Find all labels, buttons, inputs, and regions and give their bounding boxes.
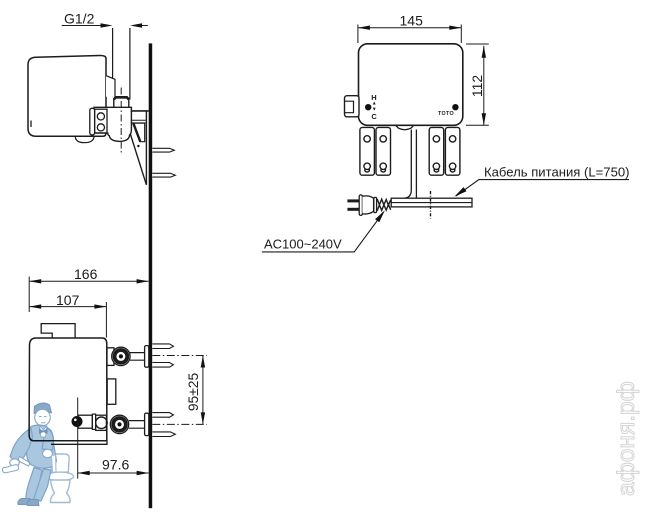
valve body: [94, 107, 131, 141]
centerline pipe dash-dot: [120, 88, 122, 154]
dim 97.6 line: [78, 472, 149, 474]
plate holes lower with keyhole tails: [364, 163, 456, 172]
lower washer: [145, 413, 149, 435]
plumber face: [35, 409, 51, 425]
side small rect: [107, 379, 116, 404]
bracket plate 4: [445, 127, 460, 175]
upper washer: [145, 346, 149, 368]
plumber jacket: [26, 425, 56, 468]
pipe nut: [114, 97, 129, 108]
right arm sleeve: [42, 428, 54, 450]
valve circle upper: [97, 113, 104, 120]
toilet pedestal: [50, 480, 70, 503]
bracket screw dot: [137, 145, 139, 147]
control box: [359, 44, 463, 126]
extension line pipe right: [129, 28, 131, 100]
wrench second jaw: [18, 457, 29, 467]
svg-text:TOTO: TOTO: [438, 111, 454, 117]
lower bolt shaft: [129, 421, 145, 429]
bracket top edge: [131, 110, 149, 112]
valve circle lower: [97, 124, 104, 131]
shoe right: [27, 500, 39, 506]
plug body: [362, 196, 373, 214]
AC label leader: [262, 212, 384, 252]
dim 107 right extension line: [105, 302, 107, 338]
sensor body side view: [28, 55, 106, 136]
bow tie: [39, 429, 48, 435]
upper bolt shaft: [130, 353, 145, 361]
strain relief ribs: [377, 199, 391, 211]
inlet vertical extension: [77, 398, 79, 479]
body bottom foot: [75, 136, 94, 143]
svg-text:афоня.рф: афоня.рф: [613, 381, 640, 496]
bracket cutout heavy diagonal: [133, 123, 140, 142]
pipe nut heavy top: [114, 97, 129, 99]
connector slot: [345, 101, 354, 113]
bracket flange lines: [131, 120, 146, 123]
plug face plate: [359, 195, 362, 216]
plate holes upper: [364, 136, 370, 142]
back plate bottom: [51, 441, 107, 445]
bracket plate 1: [360, 127, 375, 175]
inlet clamp circle: [96, 417, 108, 429]
svg-text:G1/2: G1/2: [64, 11, 95, 27]
cable middle line: [391, 202, 472, 204]
plug prongs: [347, 199, 359, 202]
valve left sub-box: [95, 109, 107, 133]
horizontal cable: [391, 198, 472, 207]
upper wall rod: [152, 148, 174, 152]
inlet clamp: [96, 415, 107, 430]
bracket plate 2: [376, 127, 391, 175]
svg-text:AC100~240V: AC100~240V: [264, 236, 342, 251]
upper centerline: [152, 355, 207, 357]
wall: [149, 43, 153, 508]
back panel step: [106, 76, 115, 97]
plumber left arm with sleeve: [10, 428, 33, 463]
dim 166/107 left extension line: [28, 277, 30, 313]
extension line pipe left: [112, 28, 114, 97]
upper prong B: [152, 363, 173, 368]
dimension G1/2 arrow left-pointing: [130, 23, 142, 27]
shirt: [40, 426, 48, 438]
upper mount block: [107, 348, 114, 366]
right dot: [452, 104, 458, 110]
left leg: [26, 468, 42, 501]
right leg crossing: [34, 469, 52, 501]
plunger handle: [52, 455, 57, 472]
cable label leader: [456, 180, 629, 196]
dim 145 extension lines: [358, 25, 461, 44]
vertical cable: [403, 130, 416, 199]
right hand on plunger: [43, 449, 53, 457]
valve end cap: [90, 108, 95, 135]
dimension G1/2 line left segment: [62, 25, 102, 27]
svg-text:166: 166: [74, 266, 98, 282]
inlet thin bar: [92, 414, 95, 429]
inlet black circle: [72, 416, 83, 427]
dim 145 line: [358, 27, 461, 29]
cable gland: [396, 125, 414, 129]
bracket cutout: [133, 123, 144, 142]
cable break mark: [430, 191, 432, 219]
bracket plate 3: [429, 127, 444, 175]
dimension G1/2 line right segment: [141, 25, 148, 27]
left hand: [10, 459, 20, 466]
lower wall rod: [152, 173, 175, 177]
left connector: [345, 96, 360, 117]
bracket plate front line: [145, 111, 147, 185]
mounting tab: [41, 324, 75, 338]
dim 112 extension lines: [466, 44, 489, 125]
upper prong A: [152, 344, 173, 349]
plug neck: [374, 197, 377, 212]
svg-text:C: C: [371, 112, 377, 121]
svg-text:112: 112: [469, 75, 485, 98]
svg-text:95±25: 95±25: [186, 373, 201, 412]
dim 112 line: [483, 46, 485, 126]
lower prong B: [152, 432, 175, 437]
wrench: [2, 465, 18, 473]
svg-text:145: 145: [400, 13, 424, 29]
plumber hair: [34, 403, 52, 413]
shoe left: [18, 499, 31, 505]
body side view: [29, 338, 107, 441]
dim 95+-25 line: [202, 356, 204, 425]
lower centerline: [152, 423, 207, 425]
plumber mascot watermark: [2, 403, 73, 505]
svg-text:Кабель питания (L=750): Кабель питания (L=750): [484, 165, 630, 180]
lower bolt circle: [110, 415, 128, 433]
face features: [40, 417, 47, 424]
toilet bowl rim: [46, 472, 73, 481]
seam tick on body: [30, 121, 32, 128]
svg-text:107: 107: [56, 292, 80, 308]
left dot: [365, 104, 371, 110]
svg-text:97.6: 97.6: [102, 457, 129, 473]
lower prong A: [152, 413, 173, 418]
bracket hypotenuse: [130, 134, 146, 185]
dim 107 line: [29, 306, 106, 308]
dimension G1/2 arrow right-pointing: [101, 23, 113, 27]
upper bolt circle: [112, 347, 130, 365]
dim 166 line: [29, 280, 148, 282]
inlet cylinder: [78, 415, 92, 428]
toilet tank: [51, 454, 70, 473]
